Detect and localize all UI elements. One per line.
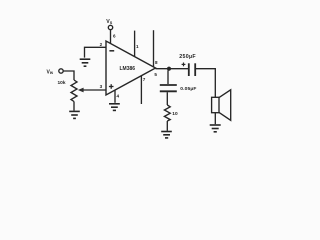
capacitor C1 250uF: [189, 63, 195, 76]
wire input to pot top: [63, 71, 74, 80]
pin1 stub: [134, 31, 136, 57]
ground (zobel): [161, 132, 172, 138]
svg-text:6: 6: [113, 34, 116, 39]
pin7 stub: [140, 76, 142, 104]
wire pin4: [114, 90, 116, 103]
svg-text:2: 2: [100, 42, 103, 47]
svg-text:3: 3: [100, 84, 103, 89]
plus sign (C1 polarity): [182, 63, 186, 67]
wire pin6: [110, 30, 112, 44]
svg-text:10: 10: [172, 111, 178, 117]
terminal VS: [108, 25, 112, 29]
potentiometer R1 10k: [71, 80, 77, 102]
capacitor C2 0.05uF: [160, 85, 177, 91]
minus sign (pin 2 input): [109, 50, 114, 52]
svg-text:10k: 10k: [58, 80, 66, 86]
resistor R2 10: [164, 105, 170, 121]
wire output pin5: [156, 68, 189, 70]
svg-text:250µF: 250µF: [179, 54, 196, 60]
svg-text:VIN: VIN: [47, 69, 54, 75]
svg-text:5: 5: [154, 72, 157, 77]
svg-text:4: 4: [117, 94, 120, 99]
speaker LS1: [212, 97, 219, 112]
wire pot bottom: [73, 102, 75, 111]
svg-text:7: 7: [143, 77, 146, 82]
wire C2 to R2: [166, 92, 168, 105]
plus sign (pin 3 input): [109, 84, 114, 89]
svg-text:LM386: LM386: [120, 66, 136, 72]
svg-text:8: 8: [155, 60, 158, 65]
svg-text:0.05µF: 0.05µF: [180, 86, 196, 92]
wire junction to C2: [167, 70, 169, 84]
pin8 stub: [153, 30, 155, 67]
node output junction: [167, 67, 171, 71]
wire R2 to ground: [166, 121, 168, 131]
ground (pin 4): [109, 104, 120, 111]
ground (pot): [69, 111, 80, 118]
terminal VIN: [59, 69, 63, 73]
ground (pin 2): [80, 59, 91, 66]
wire speaker to ground: [214, 113, 216, 125]
wire cap to speaker: [195, 69, 215, 98]
op-amp U1 LM386: [106, 41, 156, 95]
wire pin2 to ground: [85, 47, 107, 57]
svg-text:1: 1: [136, 44, 139, 49]
ground (speaker): [210, 125, 221, 132]
wiper arrow to pin 3: [83, 89, 106, 91]
